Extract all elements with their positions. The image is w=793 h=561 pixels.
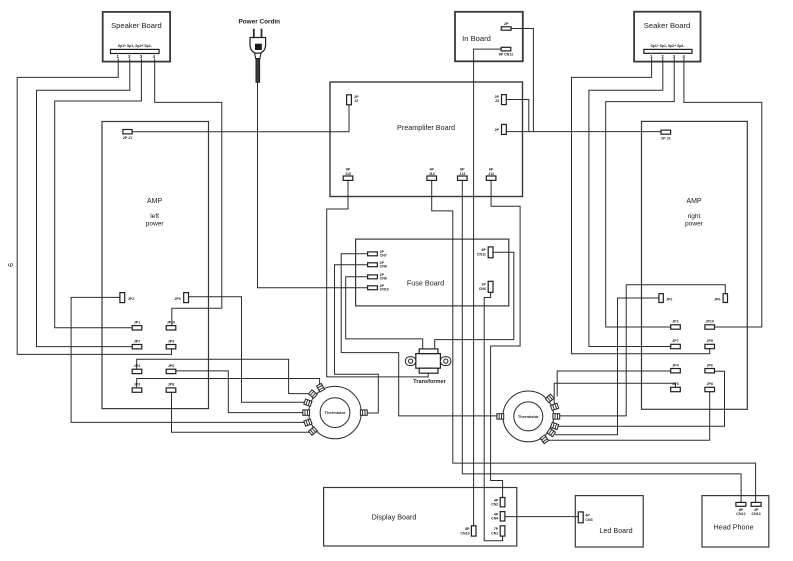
seaker board pin numbers 1 2 3 4 [650,54,685,59]
amp-right JP6 label [706,363,712,367]
svg-text:9: 9 [6,263,13,267]
amp-left JP3 label [134,383,140,387]
amp-left connector JP7 [132,345,142,349]
amp-left JP6 label [168,364,174,368]
amp-left connector JP6 [166,369,176,373]
amp-left JP10 label [167,320,175,324]
preamp connector J15 [343,176,353,180]
svg-text:JP9: JP9 [168,339,174,343]
power cord cable (thick) [256,59,260,83]
amp-right JP10 label [705,320,713,324]
preamp J13 label [459,168,465,176]
amp-right connector JP10 [705,325,715,329]
preamp connector J13 [458,176,468,180]
fuse connector CN7 [368,252,378,256]
amp left power board outline [102,122,209,409]
wire power cord to fuse CN10 [258,82,368,287]
wire in-board CN12 to display CN10 [474,49,502,526]
head phone board outline [702,496,769,547]
amp-left connector JP1 [132,326,142,330]
wire fuse CN11 to transformer primary right [435,252,514,349]
svg-text:2P J1: 2P J1 [123,136,132,140]
amp-left connector JP3 [132,388,142,392]
display connector CN2 [500,498,505,507]
amp-right connector JP6 vertical [723,294,727,303]
wire JP4 to left fan stub 140deg [137,359,312,393]
wire right JP6 to right fan stub -20deg [558,371,724,426]
svg-text:CN10: CN10 [380,288,389,292]
left fan (thermistor) [303,383,367,438]
transformer top flange [419,349,438,354]
transformer right mounting ear [440,357,451,366]
svg-text:Transformer: Transformer [413,379,446,385]
amp-left connector JP8 [166,388,176,392]
display CN10 label [460,527,470,535]
svg-text:CN7: CN7 [380,254,387,258]
wire fuse CN9 to transformer primary left [346,277,423,349]
svg-text:CN6: CN6 [479,287,486,291]
amp-right connector JP9 [705,344,715,348]
svg-text:Head Phone: Head Phone [714,522,754,531]
svg-text:JP2: JP2 [128,297,134,301]
svg-text:JP10: JP10 [167,320,175,324]
svg-text:CN13: CN13 [751,512,760,516]
svg-text:Seaker Board: Seaker Board [644,21,690,30]
wire seaker pin1 to right JP9 [572,58,710,353]
preamplifier board outline [330,82,523,197]
seaker board pin labels [651,44,685,48]
svg-text:power: power [685,221,704,228]
power plug body [250,38,266,54]
svg-text:CN2: CN2 [491,503,498,507]
amp-right connector JP7 [671,344,681,348]
svg-text:CN12: CN12 [736,512,745,516]
amp-left connector J1 [123,130,132,134]
fuse connector CN11 [488,247,493,258]
svg-text:2P: 2P [504,22,509,26]
svg-text:Sp1+ Sp1- Sp2+ Sp2-: Sp1+ Sp1- Sp2+ Sp2- [118,44,152,48]
headphone CN13 label [751,508,760,516]
fuse CN9 label [380,273,387,281]
in board connector CN12 [501,47,511,51]
amp-right connector JP8 [705,387,715,391]
speaker board connector strip [111,49,160,53]
svg-text:Power Cordin: Power Cordin [239,19,281,26]
svg-text:JP6: JP6 [714,297,720,301]
wire preamp J14 to headphone CN13 [432,181,756,503]
headphone CN12 label [736,508,745,516]
wire JP8 to left fan stub 220deg [172,392,312,432]
amp-right JP3 label [672,382,678,386]
amp-right JP8 label [706,382,712,386]
speaker board pin numbers 1 2 3 4 [117,54,156,59]
wire seaker pin2 to right JP7 [589,58,671,346]
wire JP6 vertical to left fan stub 160deg [189,297,307,403]
headphone connector CN12 [736,502,746,506]
wire seaker pin3 to right JP1 [606,58,675,327]
amp-right JP7 label [672,339,678,343]
svg-text:AMP: AMP [686,198,702,205]
led board outline [575,496,643,547]
svg-text:Speaker Board: Speaker Board [111,21,162,30]
svg-text:JP6: JP6 [706,363,712,367]
wire speaker1 pin3 to JP1 [55,59,142,328]
amp-left JP8 label [168,383,174,387]
preamp J3 label [495,95,500,103]
amp-right JP9 label [706,339,712,343]
svg-text:J2: J2 [354,99,358,103]
amp-left J1 label [123,136,132,140]
svg-text:Led Board: Led Board [599,526,632,535]
right fan (thermistor) [497,391,560,444]
svg-text:Display Board: Display Board [372,513,417,522]
amp-right JP4 label [672,363,678,367]
svg-text:JP8: JP8 [168,383,174,387]
seaker board (right) outline [634,12,700,62]
svg-text:J15: J15 [345,172,351,176]
led connector CN3 [578,512,583,523]
amp-left connector JP4 [132,369,142,373]
svg-text:CN3: CN3 [585,518,592,522]
fuse connector CN10 [368,286,378,290]
amp-left JP7 label [134,339,140,343]
in board connector 2P [501,27,511,30]
svg-text:J12: J12 [488,172,494,176]
display CN4 label [491,513,499,521]
power plug core (dark square) [255,44,262,50]
svg-text:J14: J14 [429,172,435,176]
amp-right JP2 label [666,297,672,301]
preamp connector J3 [502,95,507,105]
wire speaker1 pin1 to JP9 [17,59,171,355]
wire JP3 to left fan stub 120deg [137,379,320,389]
svg-text:Fuse Board: Fuse Board [407,278,444,287]
in board outline [455,12,523,62]
svg-text:AMP: AMP [147,198,163,205]
fuse CN6 label [479,283,487,291]
svg-text:CN10: CN10 [460,531,469,535]
wire right JP2 to right fan stub -35deg [555,298,659,435]
amp-right J2 label [661,137,670,141]
fuse CN11 label [477,248,487,256]
wire fuse CN6 to display CN1 [484,292,502,541]
svg-text:JP1: JP1 [672,320,678,324]
svg-text:power: power [146,221,165,228]
amp-right connector JP4 [671,369,681,373]
power plug neck [255,53,261,58]
amp-right connector JP3 [671,387,681,391]
wire display CN4 to led CN3 [505,516,578,518]
wire JP2 to left fan stub 200deg [71,297,306,422]
fuse board outline [356,239,509,306]
amp-right JP6v label [714,297,720,301]
preamp connector J14 [427,176,437,180]
display board outline [324,488,517,547]
display connector CN10 [471,526,476,536]
wire JP6 to left fan stub 180deg [176,371,305,413]
amp-right JP1 label [672,320,678,324]
amp-left connector JP9 [166,345,176,349]
preamp J14 label [429,168,435,176]
preamp connector J2 [347,95,352,105]
preamp J15 label [345,168,351,176]
wire in-board 2P drop [511,29,533,132]
wire speaker1 pin4 to JP10 [155,59,222,326]
fuse connector CN8 [368,263,378,267]
headphone connector CN13 [751,502,761,506]
amp-right connector JP2 [659,294,663,303]
wire right JP3 to right fan stub 20deg [554,383,675,404]
wire preamp 2P to amp-right J2 [506,131,661,133]
wire seaker pin4 to right JP10 [684,58,762,327]
power plug prongs [254,29,262,38]
seaker board connector strip [644,49,692,53]
amp-left JP2 label [128,297,134,301]
wire right JP6 vertical to right fan stub 0deg [558,285,726,416]
svg-text:JP4: JP4 [134,364,140,368]
svg-text:right: right [688,213,701,220]
transformer left mounting ear [405,357,416,366]
svg-text:JP6: JP6 [174,297,180,301]
in board CN12 label [499,53,514,57]
amp-left JP6v label [174,297,180,301]
svg-text:CN8: CN8 [380,265,387,269]
svg-text:2P: 2P [495,128,500,132]
fuse connector CN9 [368,275,378,279]
svg-text:left: left [150,213,159,220]
amp-left connector JP10 [166,326,176,330]
amp-right connector J2 [661,130,671,134]
wire preamp J3 drop [506,100,529,132]
svg-text:CN11: CN11 [477,252,486,256]
svg-text:J3: J3 [495,99,499,103]
svg-text:JP2: JP2 [666,297,672,301]
amp-left JP1 label [134,320,140,324]
svg-text:JP1: JP1 [134,320,140,324]
display CN2 label [491,499,499,507]
svg-text:Sp1+ Sp1- Sp2+ Sp2-: Sp1+ Sp1- Sp2+ Sp2- [651,44,685,48]
speaker board pin labels Sp1+ Sp1- Sp2+ Sp2- [118,44,152,48]
svg-text:JP7: JP7 [672,339,678,343]
amp-left connector JP6 vertical [184,293,189,303]
transformer body [416,354,441,369]
svg-text:JP8: JP8 [706,382,712,386]
amp-right connector JP6 [705,369,715,373]
svg-text:JP7: JP7 [134,339,140,343]
svg-text:Preamplifer Board: Preamplifer Board [397,123,455,132]
wire preamp J15 to transformer bottom [327,181,429,377]
svg-text:In Board: In Board [462,34,491,43]
amp-left JP4 label [134,364,140,368]
wire preamp J12 to display CN2 [491,181,520,498]
fuse CN8 label [380,261,387,269]
display connector CN4 [500,512,505,521]
amp-left JP9 label [168,339,174,343]
svg-text:CN1: CN1 [491,531,498,535]
preamp 2P label [495,128,500,132]
svg-text:2P J2: 2P J2 [661,137,670,141]
svg-text:Thermistor: Thermistor [325,410,346,415]
fuse CN7 label [380,250,387,258]
svg-text:JP4: JP4 [672,363,678,367]
amp-left connector JP2 [120,293,125,303]
display connector CN1 [500,526,505,536]
preamp J2 label [354,95,359,103]
led CN3 label [585,514,592,522]
preamp connector J12 [486,176,496,180]
wire fuse CN7 to right fan left stub [341,254,499,416]
svg-text:Thermistor: Thermistor [518,414,539,419]
fuse CN10 label [380,284,389,292]
wire amp-left J1 to preamp J2 [132,105,349,132]
preamp J12 label [488,168,494,176]
fuse connector CN6 [488,281,493,292]
speaker board (left) outline [103,12,170,62]
svg-text:JP6: JP6 [168,364,174,368]
svg-text:JP3: JP3 [134,383,140,387]
transformer bottom flange [419,368,438,373]
in board 2P label [504,22,509,26]
display CN1 label [491,527,499,535]
svg-text:JP9: JP9 [706,339,712,343]
svg-text:8P CN12: 8P CN12 [499,53,514,57]
svg-text:JP10: JP10 [705,320,713,324]
svg-text:CN4: CN4 [491,517,498,521]
preamp connector 2P right [502,124,507,134]
amp right power board outline [642,121,748,409]
svg-text:J13: J13 [459,172,465,176]
svg-text:CN9: CN9 [380,277,387,281]
wire speaker1 pin2 to JP7 [37,59,133,347]
wire preamp J13 to headphone CN12 [462,181,741,503]
wire right JP8 to right fan stub -55deg [548,392,710,441]
wire fuse CN8 to left fan right stub [335,265,379,413]
amp-right connector JP1 [671,325,681,329]
wire right JP4 to right fan stub 40deg [557,371,671,397]
svg-text:JP3: JP3 [672,382,678,386]
